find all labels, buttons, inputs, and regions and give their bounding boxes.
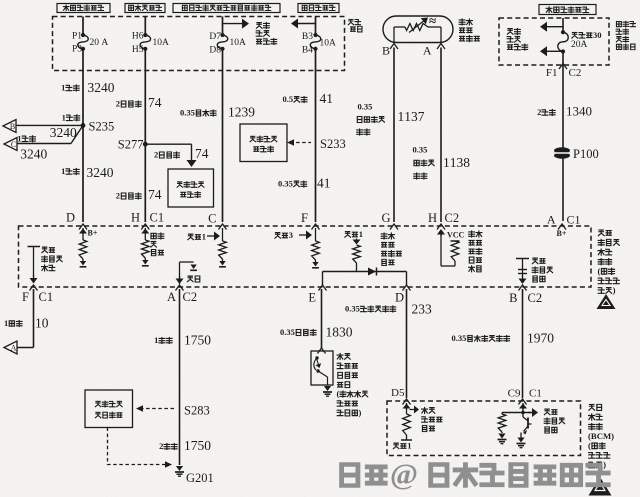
svg-text:H: H <box>131 211 140 225</box>
svg-text:10A: 10A <box>230 38 247 48</box>
svg-text:1750: 1750 <box>184 333 211 348</box>
svg-text:P3: P3 <box>72 44 82 54</box>
svg-text:(: ( <box>588 440 591 450</box>
svg-text:30: 30 <box>593 30 602 40</box>
svg-text:10: 10 <box>35 316 49 331</box>
svg-text:0.35: 0.35 <box>452 333 467 343</box>
svg-text:3240: 3240 <box>88 80 115 95</box>
svg-text:S277: S277 <box>118 138 144 152</box>
svg-text:0.35: 0.35 <box>180 108 195 118</box>
svg-text:(BCM): (BCM) <box>588 431 614 441</box>
svg-text:C9: C9 <box>508 388 521 400</box>
svg-text:D5: D5 <box>391 387 405 399</box>
svg-text:(: ( <box>598 266 601 276</box>
svg-text:1137: 1137 <box>398 109 425 124</box>
svg-text:C1: C1 <box>567 213 581 227</box>
svg-text:≈: ≈ <box>429 13 436 28</box>
svg-text:1: 1 <box>17 133 21 143</box>
svg-text:B: B <box>10 122 15 131</box>
svg-text:1: 1 <box>61 83 65 93</box>
svg-text:): ) <box>359 407 362 417</box>
svg-text:C: C <box>11 140 16 149</box>
svg-text:S235: S235 <box>89 120 115 134</box>
svg-text:3: 3 <box>289 230 293 240</box>
svg-text:B+: B+ <box>557 229 567 238</box>
svg-text:74: 74 <box>148 187 162 202</box>
svg-text:2: 2 <box>116 99 120 109</box>
svg-text:C1: C1 <box>150 211 165 225</box>
svg-text:H6: H6 <box>132 32 144 42</box>
svg-text:1: 1 <box>61 166 65 176</box>
svg-text:1830: 1830 <box>326 325 353 340</box>
svg-text:0.5: 0.5 <box>283 94 294 104</box>
svg-text:41: 41 <box>320 91 334 106</box>
svg-text:F: F <box>22 290 29 304</box>
svg-text:P100: P100 <box>573 147 599 161</box>
svg-text:0.35: 0.35 <box>413 145 428 155</box>
svg-text:41: 41 <box>317 176 331 191</box>
svg-text:3240: 3240 <box>87 165 114 180</box>
svg-text:1: 1 <box>4 318 8 328</box>
svg-text:2: 2 <box>537 107 541 117</box>
svg-text:C2: C2 <box>445 211 460 225</box>
svg-text:2: 2 <box>159 441 163 451</box>
svg-text:A: A <box>167 290 176 304</box>
svg-text:G201: G201 <box>186 471 214 485</box>
svg-text:D: D <box>395 291 404 305</box>
svg-text:H5: H5 <box>132 45 144 55</box>
svg-text:0.35: 0.35 <box>358 102 373 112</box>
svg-text:C1: C1 <box>39 290 54 304</box>
svg-text:74: 74 <box>148 95 162 110</box>
svg-text:20A: 20A <box>571 40 588 50</box>
svg-text:VCC: VCC <box>447 231 465 240</box>
svg-text:10A: 10A <box>153 38 170 48</box>
svg-text:(: ( <box>337 389 340 399</box>
svg-text:1970: 1970 <box>527 331 554 346</box>
svg-text:0.35: 0.35 <box>345 304 360 314</box>
svg-text:S283: S283 <box>184 404 210 418</box>
svg-text:A: A <box>547 213 556 227</box>
svg-text:2: 2 <box>116 191 120 201</box>
svg-text:C2: C2 <box>528 291 543 305</box>
svg-text:G: G <box>381 211 390 225</box>
svg-text:3240: 3240 <box>20 147 47 162</box>
svg-text:D7: D7 <box>209 32 221 42</box>
svg-text:1239: 1239 <box>228 105 255 120</box>
svg-text:1: 1 <box>62 112 66 122</box>
svg-text:P1: P1 <box>72 32 82 42</box>
svg-text:0.35: 0.35 <box>278 179 293 189</box>
svg-text:20 A: 20 A <box>90 38 109 48</box>
svg-text:F: F <box>301 211 308 225</box>
svg-text:H: H <box>428 211 437 225</box>
svg-text:S233: S233 <box>320 137 346 151</box>
svg-text:1: 1 <box>407 441 411 451</box>
svg-text:B+: B+ <box>88 229 98 238</box>
svg-text:E: E <box>308 291 316 305</box>
svg-text:B: B <box>382 44 390 58</box>
svg-text:2: 2 <box>154 150 158 160</box>
svg-text:0.35: 0.35 <box>280 327 295 337</box>
svg-text:C2: C2 <box>569 67 582 79</box>
svg-text:1: 1 <box>154 335 158 345</box>
svg-text:B3: B3 <box>302 32 313 42</box>
svg-text:): ) <box>613 285 616 295</box>
svg-text:233: 233 <box>412 302 433 317</box>
svg-text:74: 74 <box>195 146 209 161</box>
svg-text:D8: D8 <box>209 46 221 56</box>
svg-text:1340: 1340 <box>566 104 592 119</box>
svg-text:@: @ <box>390 457 418 491</box>
svg-text:1138: 1138 <box>443 155 470 170</box>
svg-text:D: D <box>66 211 75 225</box>
svg-text:C1: C1 <box>529 388 542 400</box>
svg-text:): ) <box>603 460 606 470</box>
svg-text:C2: C2 <box>183 290 198 304</box>
svg-text:1: 1 <box>359 229 363 239</box>
svg-text:3240: 3240 <box>50 125 77 140</box>
svg-text:10A: 10A <box>320 39 337 49</box>
svg-text:1750: 1750 <box>184 438 211 453</box>
svg-text:B4: B4 <box>302 46 313 56</box>
svg-text:A: A <box>423 44 432 58</box>
svg-text:B: B <box>509 291 517 305</box>
svg-text:F1: F1 <box>546 67 558 79</box>
svg-text:1: 1 <box>202 232 206 242</box>
svg-text:A: A <box>11 344 17 353</box>
svg-text:C: C <box>208 212 216 226</box>
